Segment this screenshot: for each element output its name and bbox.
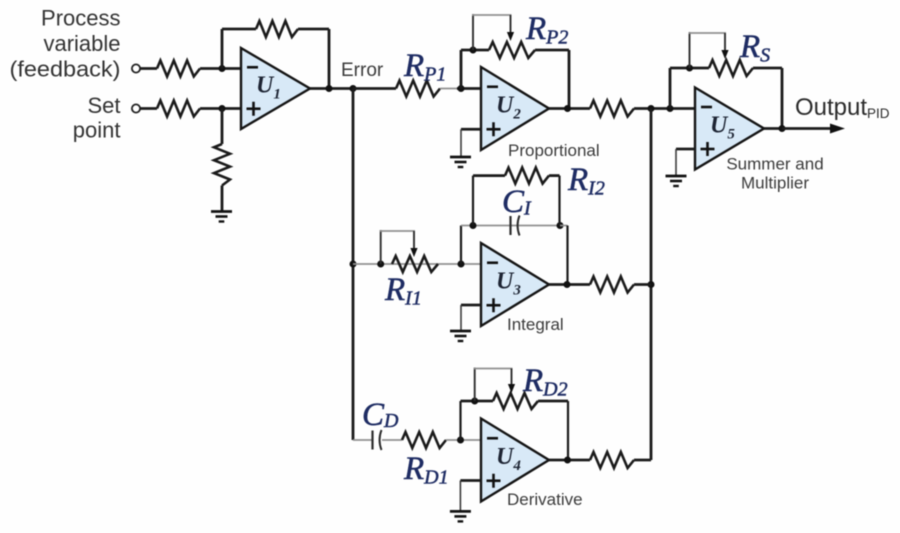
svg-text:Multiplier: Multiplier (741, 174, 809, 193)
svg-text:Set: Set (87, 93, 120, 118)
svg-text:Derivative: Derivative (507, 490, 583, 509)
svg-text:Summer and: Summer and (726, 155, 823, 174)
svg-text:Process: Process (41, 6, 120, 31)
svg-text:Integral: Integral (507, 315, 564, 334)
svg-text:point: point (73, 118, 121, 143)
svg-text:(feedback): (feedback) (10, 57, 121, 82)
svg-text:Error: Error (341, 60, 384, 81)
svg-text:Proportional: Proportional (508, 141, 600, 160)
svg-text:variable: variable (43, 31, 120, 56)
